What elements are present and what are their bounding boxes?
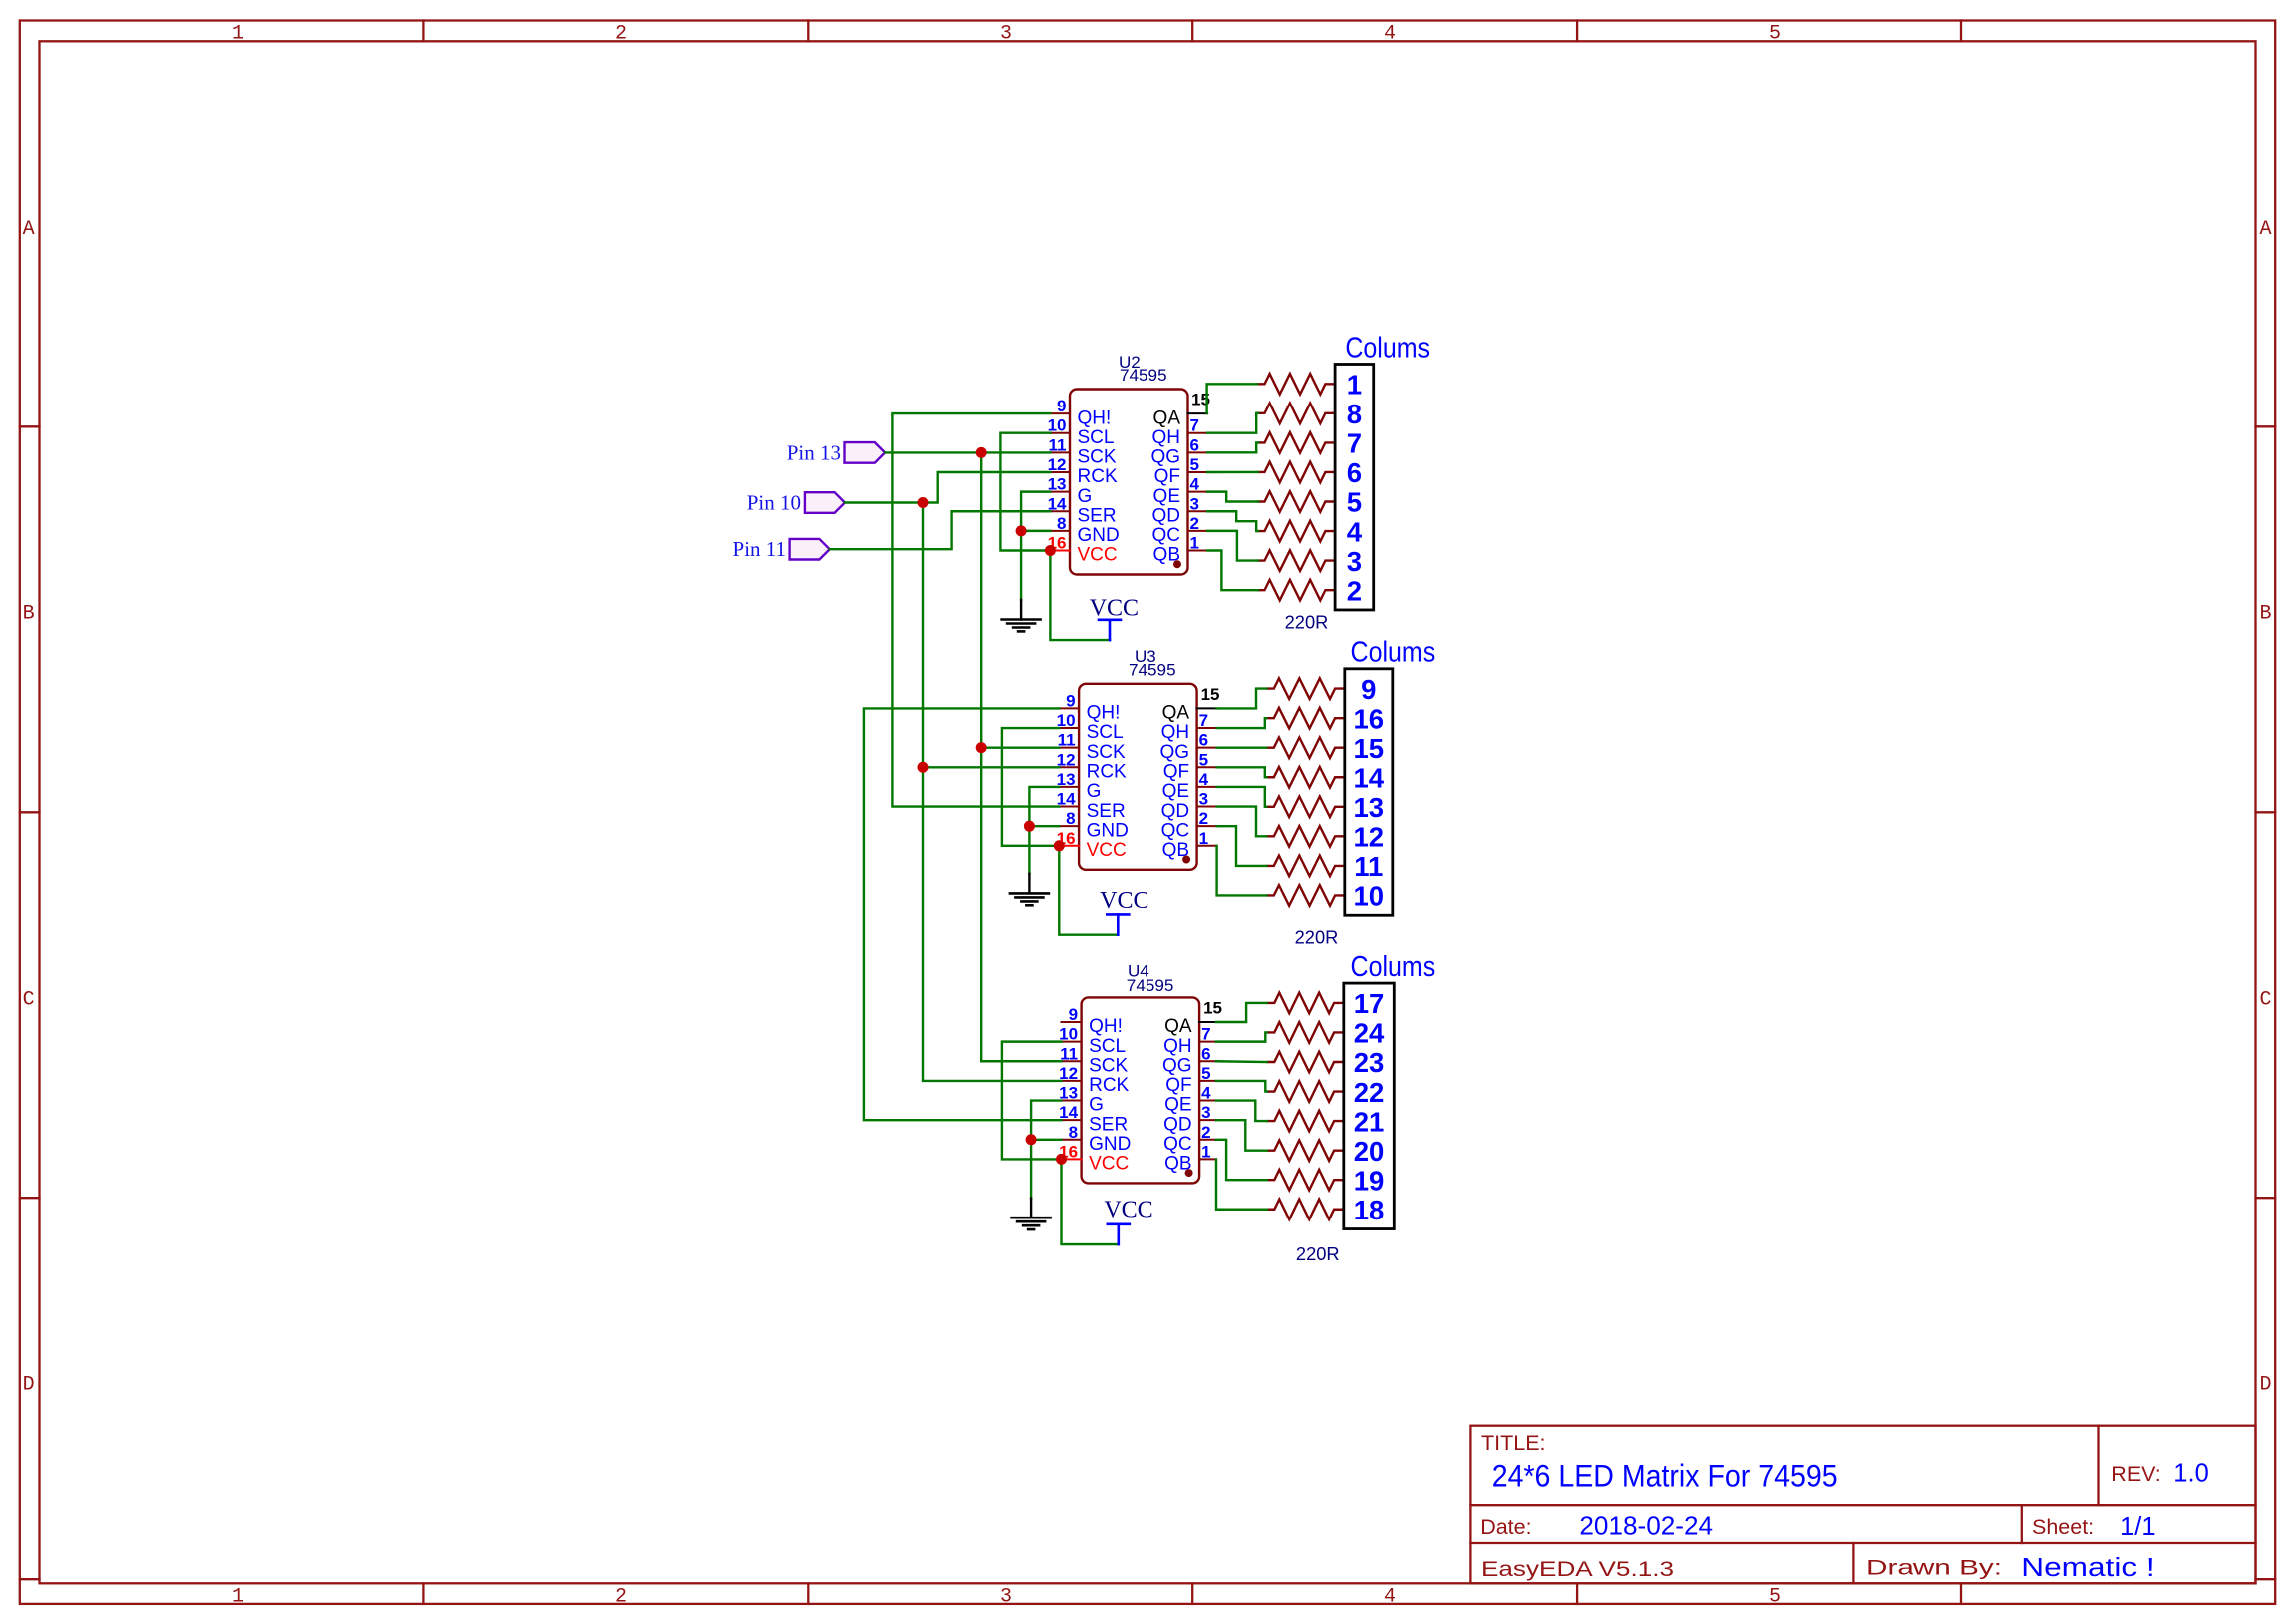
svg-text:QE: QE xyxy=(1153,486,1180,507)
resistor R7 220R xyxy=(1257,550,1335,571)
wire U2.QF to resistor R4 xyxy=(1207,471,1258,473)
wire net SCK: Pin 13 flag to U2.SCK xyxy=(885,451,1050,453)
svg-text:2: 2 xyxy=(1347,575,1362,606)
resistor R6 220R xyxy=(1267,1140,1344,1161)
connector header Colums (U2 bank) box xyxy=(1335,365,1374,610)
svg-text:7: 7 xyxy=(1190,416,1199,435)
svg-text:SCL: SCL xyxy=(1078,427,1115,448)
U2 pin-1 marker dot xyxy=(1173,560,1181,568)
net flag Pin 11 xyxy=(790,539,830,560)
svg-text:B: B xyxy=(2259,603,2271,626)
frame column tick (bottom) xyxy=(422,1583,424,1604)
U2 pin 6 (QG) pin line xyxy=(1188,451,1208,453)
wire U2.QG to resistor R3 xyxy=(1207,442,1258,452)
wire U3.QH! to U4.SER (serial cascade) xyxy=(864,708,1062,1120)
svg-text:2018-02-24: 2018-02-24 xyxy=(1579,1513,1713,1541)
wire U4.G to U4.GND (output enable tied low) xyxy=(1031,1101,1061,1140)
svg-text:12: 12 xyxy=(1354,822,1385,853)
svg-text:6: 6 xyxy=(1201,1044,1210,1063)
svg-text:16: 16 xyxy=(1354,703,1385,734)
resistor R2 220R xyxy=(1267,1022,1344,1043)
resistor R4 220R xyxy=(1257,462,1335,483)
svg-text:QF: QF xyxy=(1154,466,1180,487)
U2 pin 8 (GND) pin line xyxy=(1050,530,1070,532)
svg-text:Drawn By:: Drawn By: xyxy=(1866,1556,2002,1580)
svg-text:D: D xyxy=(2259,1374,2271,1397)
svg-text:1: 1 xyxy=(1347,370,1362,401)
VCC power symbol (U3) xyxy=(1117,914,1120,934)
wire U3.QH to resistor R2 xyxy=(1217,718,1267,728)
resistor R3 220R xyxy=(1267,1052,1344,1073)
svg-text:24: 24 xyxy=(1354,1018,1385,1049)
resistor R8 220R xyxy=(1257,580,1335,601)
wire net RCK: vertical to U4.RCK xyxy=(923,767,1062,1081)
svg-text:1: 1 xyxy=(232,23,244,46)
wire net RCK: Pin 10 flag to U2.RCK xyxy=(845,472,1051,503)
wire U2.QD to resistor R6 xyxy=(1207,511,1258,531)
wire net SCK: vertical to U3.SCK xyxy=(981,452,1059,747)
svg-text:QF: QF xyxy=(1165,1075,1191,1096)
svg-text:Nematic !: Nematic ! xyxy=(2021,1554,2154,1582)
frame row tick (right) xyxy=(2256,1197,2276,1199)
svg-text:QA: QA xyxy=(1162,703,1190,724)
wire U2.G to U2.GND (output enable tied low) xyxy=(1021,492,1050,531)
U4 pin 14 (SER) pin line xyxy=(1062,1119,1082,1121)
svg-text:19: 19 xyxy=(1354,1165,1385,1196)
svg-text:SCL: SCL xyxy=(1087,722,1124,743)
svg-text:SER: SER xyxy=(1078,505,1117,526)
svg-text:GND: GND xyxy=(1078,525,1120,546)
svg-text:Date:: Date: xyxy=(1480,1515,1531,1539)
svg-text:1.0: 1.0 xyxy=(2173,1460,2208,1488)
svg-text:Pin 11: Pin 11 xyxy=(733,537,786,561)
svg-text:QH: QH xyxy=(1161,722,1190,743)
U3 pin 4 (QE) pin line xyxy=(1197,786,1217,788)
svg-text:VCC: VCC xyxy=(1090,596,1139,622)
svg-text:15: 15 xyxy=(1203,998,1222,1017)
title block row line (below Date row) xyxy=(1470,1542,2255,1544)
U3 pin 6 (QG) pin line xyxy=(1197,747,1217,749)
svg-text:QH!: QH! xyxy=(1089,1016,1123,1037)
svg-text:A: A xyxy=(23,218,35,241)
U4 pin 3 (QD) pin line xyxy=(1199,1119,1216,1121)
svg-text:23: 23 xyxy=(1354,1047,1385,1078)
resistor R5 220R xyxy=(1266,797,1345,818)
resistor R6 220R xyxy=(1266,826,1345,847)
svg-text:QC: QC xyxy=(1161,820,1190,841)
frame column tick (bottom) xyxy=(1960,1583,1962,1604)
U3 pin 5 (QF) pin line xyxy=(1197,766,1217,768)
resistor R6 220R xyxy=(1257,521,1335,542)
U3 pin-1 marker dot xyxy=(1182,856,1190,864)
svg-text:3: 3 xyxy=(1347,546,1362,577)
svg-text:13: 13 xyxy=(1354,792,1385,823)
resistor R7 220R xyxy=(1266,856,1345,877)
74595 IC U3 body xyxy=(1079,684,1197,870)
svg-text:8: 8 xyxy=(1066,809,1075,828)
svg-text:EasyEDA V5.1.3: EasyEDA V5.1.3 xyxy=(1481,1557,1674,1581)
U3 pin 16 (VCC) pin line xyxy=(1059,845,1079,847)
U3 pin 3 (QD) pin line xyxy=(1197,806,1217,808)
svg-text:7: 7 xyxy=(1199,711,1208,730)
svg-text:3: 3 xyxy=(1000,23,1012,46)
wire U2.QH to resistor R2 xyxy=(1207,413,1258,433)
svg-text:QF: QF xyxy=(1163,761,1189,782)
U4 pin 5 (QF) pin line xyxy=(1199,1080,1216,1082)
wire U4.QH to resistor R2 xyxy=(1216,1032,1267,1041)
svg-text:RCK: RCK xyxy=(1087,761,1127,782)
U4 pin 10 (SCL) pin line xyxy=(1062,1041,1082,1043)
svg-text:QD: QD xyxy=(1163,1114,1192,1135)
wire U3.VCC to VCC symbol xyxy=(1059,846,1118,935)
resistor R4 220R xyxy=(1267,1081,1344,1102)
svg-text:5: 5 xyxy=(1201,1064,1210,1083)
svg-text:5: 5 xyxy=(1347,487,1362,518)
U3 pin 9 (QH!) pin line xyxy=(1059,707,1079,709)
svg-text:9: 9 xyxy=(1057,397,1066,415)
U4 pin-1 marker dot xyxy=(1185,1169,1193,1177)
VCC power symbol (U2) xyxy=(1109,620,1112,640)
wire U4.QE to resistor R5 xyxy=(1216,1101,1267,1122)
wire U3.QE to resistor R5 xyxy=(1217,787,1267,807)
U4 pin 13 (G) pin line xyxy=(1062,1100,1082,1102)
U3 pin 1 (QB) pin line xyxy=(1197,845,1217,847)
U3 pin 7 (QH) pin line xyxy=(1197,727,1217,729)
resistor R2 220R xyxy=(1257,404,1335,424)
frame column tick (bottom) xyxy=(1191,1583,1193,1604)
svg-text:C: C xyxy=(2259,989,2271,1012)
svg-text:5: 5 xyxy=(1769,1585,1781,1608)
svg-text:Pin 13: Pin 13 xyxy=(787,440,841,464)
svg-text:VCC: VCC xyxy=(1089,1154,1129,1175)
resistor R5 220R xyxy=(1257,491,1335,512)
junction dot U3 GND node xyxy=(1024,821,1035,832)
svg-text:17: 17 xyxy=(1354,988,1385,1019)
U3 pin 8 (GND) pin line xyxy=(1059,825,1079,827)
svg-text:QH: QH xyxy=(1152,427,1181,448)
wire U2.QA to resistor R1 xyxy=(1207,384,1257,413)
svg-text:G: G xyxy=(1078,486,1093,507)
svg-text:Colums: Colums xyxy=(1345,333,1430,365)
svg-text:QA: QA xyxy=(1164,1016,1192,1037)
frame row tick (left) xyxy=(20,1197,40,1199)
svg-text:C: C xyxy=(23,989,35,1012)
resistor R8 220R xyxy=(1266,885,1345,906)
U2 pin 13 (G) pin line xyxy=(1050,491,1070,493)
svg-text:1: 1 xyxy=(1201,1142,1210,1161)
U3 pin 11 (SCK) pin line xyxy=(1059,747,1079,749)
connector header Colums (U3 bank) box xyxy=(1345,669,1393,915)
junction dot RCK at Pin 10 wire xyxy=(918,497,929,508)
svg-text:21: 21 xyxy=(1354,1106,1385,1137)
wire U4.QC to resistor R7 xyxy=(1216,1140,1267,1180)
svg-text:4: 4 xyxy=(1384,1585,1396,1608)
svg-text:QH!: QH! xyxy=(1087,703,1121,724)
svg-text:3: 3 xyxy=(1201,1103,1210,1122)
svg-text:SER: SER xyxy=(1089,1114,1128,1135)
wire U3.QC to resistor R7 xyxy=(1217,826,1267,866)
junction dot U3 VCC node xyxy=(1054,840,1065,851)
U2 pin 5 (QF) pin line xyxy=(1188,471,1208,473)
svg-text:3: 3 xyxy=(1199,790,1208,809)
svg-text:2: 2 xyxy=(1190,514,1199,533)
wire U2.QE to resistor R5 xyxy=(1207,492,1258,502)
wire U3.G to U3.GND (output enable tied low) xyxy=(1029,787,1059,826)
wire U4.QF to resistor R4 xyxy=(1216,1081,1267,1092)
svg-text:VCC: VCC xyxy=(1078,545,1118,566)
U4 pin 8 (GND) pin line xyxy=(1062,1139,1082,1141)
U4 pin 2 (QC) pin line xyxy=(1199,1139,1216,1141)
svg-text:4: 4 xyxy=(1190,475,1200,494)
VCC power symbol (U4) xyxy=(1118,1224,1121,1244)
connector header Colums (U4 bank) box xyxy=(1344,983,1395,1228)
svg-text:9: 9 xyxy=(1069,1005,1078,1024)
svg-text:3: 3 xyxy=(1190,494,1199,513)
title block Drawn-By divider xyxy=(1852,1543,1854,1583)
junction dot RCK at U3.RCK xyxy=(918,762,929,773)
U3 pin 15 (QA) pin line xyxy=(1197,707,1217,709)
ground symbol (U3) xyxy=(1028,874,1030,894)
title block row line (below TITLE row) xyxy=(1470,1504,2255,1506)
wire U3.QG to resistor R3 xyxy=(1217,746,1267,748)
U3 pin 12 (RCK) pin line xyxy=(1059,766,1079,768)
svg-text:5: 5 xyxy=(1190,455,1199,474)
resistor R3 220R xyxy=(1266,737,1345,758)
wire U3.SCL to U3.VCC (SRCLR tied high) xyxy=(1002,728,1059,846)
resistor R1 220R xyxy=(1267,993,1344,1014)
U2 pin 14 (SER) pin line xyxy=(1050,510,1070,512)
svg-text:SER: SER xyxy=(1087,801,1126,822)
junction dot U4 GND node xyxy=(1026,1134,1037,1145)
wire U4.QD to resistor R6 xyxy=(1216,1120,1267,1151)
svg-text:VCC: VCC xyxy=(1100,888,1148,914)
resistor R8 220R xyxy=(1267,1199,1344,1219)
svg-text:9: 9 xyxy=(1066,691,1075,710)
svg-text:Pin 10: Pin 10 xyxy=(747,490,801,514)
U2 pin 10 (SCL) pin line xyxy=(1050,432,1070,434)
svg-text:5: 5 xyxy=(1769,23,1781,46)
svg-text:TITLE:: TITLE: xyxy=(1481,1431,1546,1455)
svg-text:11: 11 xyxy=(1060,1044,1078,1063)
resistor R2 220R xyxy=(1266,708,1345,729)
svg-text:RCK: RCK xyxy=(1089,1075,1129,1096)
svg-text:QD: QD xyxy=(1152,505,1181,526)
U2 pin 9 (QH!) pin line xyxy=(1050,412,1070,414)
wire U3.QD to resistor R6 xyxy=(1217,807,1267,837)
svg-text:QA: QA xyxy=(1153,407,1181,428)
U2 pin 16 (VCC) pin line xyxy=(1050,550,1070,552)
frame corner tick (bottom-right) xyxy=(2256,1578,2276,1580)
U3 pin 10 (SCL) pin line xyxy=(1059,727,1079,729)
svg-text:A: A xyxy=(2259,218,2271,241)
svg-text:74595: 74595 xyxy=(1120,366,1167,385)
U4 pin 15 (QA) pin line xyxy=(1199,1021,1216,1023)
U4 pin 7 (QH) pin line xyxy=(1199,1041,1216,1043)
wire U3.QF to resistor R4 xyxy=(1217,767,1267,777)
svg-text:SCK: SCK xyxy=(1089,1055,1128,1076)
svg-text:14: 14 xyxy=(1354,762,1385,793)
wire U2.QC to resistor R7 xyxy=(1207,531,1258,561)
svg-text:QC: QC xyxy=(1163,1134,1192,1155)
svg-text:QC: QC xyxy=(1152,525,1181,546)
resistor R1 220R xyxy=(1257,374,1335,395)
svg-text:8: 8 xyxy=(1057,514,1066,533)
wire U4.VCC to VCC symbol xyxy=(1062,1159,1119,1244)
U2 pin 15 (QA) pin line xyxy=(1188,412,1208,414)
wire net SCK: vertical to U4.SCK xyxy=(981,748,1061,1062)
svg-text:74595: 74595 xyxy=(1127,976,1174,995)
U4 pin 1 (QB) pin line xyxy=(1199,1158,1216,1160)
ground symbol (U2) xyxy=(1020,600,1022,620)
svg-text:2: 2 xyxy=(1199,809,1208,828)
resistor R4 220R xyxy=(1266,767,1345,788)
U4 pin 16 (VCC) pin line xyxy=(1062,1158,1082,1160)
svg-text:8: 8 xyxy=(1347,399,1362,429)
net flag Pin 13 xyxy=(845,442,886,463)
frame row tick (right) xyxy=(2256,425,2276,427)
svg-text:18: 18 xyxy=(1354,1195,1385,1225)
frame row tick (left) xyxy=(20,425,40,427)
wire U2.SCL to U2.VCC (SRCLR tied high) xyxy=(1000,433,1050,551)
svg-text:QG: QG xyxy=(1150,447,1180,468)
frame column tick (top) xyxy=(422,21,424,42)
svg-text:QG: QG xyxy=(1162,1055,1192,1076)
svg-text:220R: 220R xyxy=(1295,928,1339,948)
svg-text:7: 7 xyxy=(1201,1025,1210,1044)
svg-text:1: 1 xyxy=(1199,829,1208,848)
net flag Pin 10 xyxy=(805,492,845,513)
junction dot SCK at U3.SCK xyxy=(976,742,987,753)
wire U4.QA to resistor R1 xyxy=(1216,1003,1267,1022)
resistor R7 220R xyxy=(1267,1170,1344,1191)
svg-text:220R: 220R xyxy=(1296,1244,1340,1264)
74595 IC U4 body xyxy=(1082,997,1200,1183)
frame row tick (left) xyxy=(20,811,40,813)
resistor R3 220R xyxy=(1257,432,1335,453)
frame column tick (top) xyxy=(1960,21,1962,42)
svg-text:2: 2 xyxy=(615,23,627,46)
svg-text:15: 15 xyxy=(1354,733,1385,764)
svg-text:G: G xyxy=(1089,1095,1104,1116)
svg-text:2: 2 xyxy=(615,1585,627,1608)
wire U2.GND to ground xyxy=(1021,531,1050,600)
svg-text:8: 8 xyxy=(1069,1123,1078,1142)
wire U4.QG to resistor R3 xyxy=(1216,1060,1267,1063)
junction dot SCK at Pin 13 wire xyxy=(976,447,987,458)
svg-text:1: 1 xyxy=(232,1585,244,1608)
svg-text:VCC: VCC xyxy=(1087,840,1127,861)
U3 pin 14 (SER) pin line xyxy=(1059,806,1079,808)
svg-text:QG: QG xyxy=(1160,742,1190,763)
svg-text:3: 3 xyxy=(1000,1585,1012,1608)
frame column tick (bottom) xyxy=(1576,1583,1578,1604)
wire U2.VCC to VCC symbol xyxy=(1050,551,1110,641)
wire U3.QB to resistor R8 xyxy=(1217,846,1267,896)
U2 pin 3 (QD) pin line xyxy=(1188,510,1208,512)
svg-text:SCK: SCK xyxy=(1087,742,1126,763)
svg-text:4: 4 xyxy=(1347,516,1363,547)
wire U4.GND to ground xyxy=(1031,1140,1061,1199)
svg-text:VCC: VCC xyxy=(1104,1198,1152,1223)
wire U4.SCL to U4.VCC (SRCLR tied high) xyxy=(1002,1042,1062,1160)
wire net RCK: vertical to U3.RCK xyxy=(923,503,1059,768)
svg-text:4: 4 xyxy=(1199,770,1209,789)
svg-text:B: B xyxy=(23,603,35,626)
U2 pin 1 (QB) pin line xyxy=(1188,550,1208,552)
svg-text:G: G xyxy=(1087,781,1102,802)
wire net SER: Pin 11 flag to U2.SER xyxy=(830,511,1051,549)
U4 pin 4 (QE) pin line xyxy=(1199,1100,1216,1102)
wire U3.GND to ground xyxy=(1029,826,1059,874)
frame column tick (top) xyxy=(1191,21,1193,42)
U4 pin 9 (QH!) pin line xyxy=(1062,1021,1082,1023)
svg-text:11: 11 xyxy=(1354,851,1383,882)
wire U2.QB to resistor R8 xyxy=(1207,551,1258,591)
junction dot U2 VCC node xyxy=(1045,545,1056,556)
svg-text:SCL: SCL xyxy=(1089,1036,1126,1057)
svg-text:10: 10 xyxy=(1354,881,1385,912)
svg-text:4: 4 xyxy=(1201,1084,1211,1103)
svg-text:6: 6 xyxy=(1347,457,1362,488)
U3 pin 2 (QC) pin line xyxy=(1197,825,1217,827)
svg-text:7: 7 xyxy=(1347,428,1362,459)
svg-text:220R: 220R xyxy=(1285,613,1329,633)
frame corner tick (bottom-left) xyxy=(20,1578,40,1580)
svg-text:24*6 LED Matrix For 74595: 24*6 LED Matrix For 74595 xyxy=(1492,1458,1838,1493)
U3 pin 13 (G) pin line xyxy=(1059,786,1079,788)
74595 IC U2 body xyxy=(1070,390,1188,575)
wire U2.QH! to U3.SER (serial cascade) xyxy=(892,413,1059,806)
svg-text:Colums: Colums xyxy=(1351,951,1436,983)
svg-text:QE: QE xyxy=(1164,1095,1191,1116)
U2 pin 4 (QE) pin line xyxy=(1188,491,1208,493)
ground symbol (U4) xyxy=(1030,1199,1032,1218)
frame column tick (top) xyxy=(807,21,809,42)
svg-text:QH: QH xyxy=(1163,1036,1192,1057)
svg-text:6: 6 xyxy=(1199,731,1208,750)
U4 pin 6 (QG) pin line xyxy=(1199,1060,1216,1062)
title block Sheet divider xyxy=(2021,1505,2023,1543)
svg-text:9: 9 xyxy=(1361,674,1376,705)
svg-text:20: 20 xyxy=(1354,1136,1385,1167)
wire U3.QA to resistor R1 xyxy=(1217,689,1267,709)
U2 pin 7 (QH) pin line xyxy=(1188,432,1208,434)
svg-text:15: 15 xyxy=(1201,685,1220,704)
U2 pin 12 (RCK) pin line xyxy=(1050,471,1070,473)
svg-text:Colums: Colums xyxy=(1351,637,1436,669)
svg-text:D: D xyxy=(23,1374,35,1397)
svg-text:RCK: RCK xyxy=(1078,466,1118,487)
U4 pin 11 (SCK) pin line xyxy=(1062,1060,1082,1062)
svg-text:REV:: REV: xyxy=(2111,1462,2160,1486)
frame column tick (top) xyxy=(1576,21,1578,42)
svg-text:QD: QD xyxy=(1161,801,1190,822)
U2 pin 11 (SCK) pin line xyxy=(1050,451,1070,453)
frame row tick (right) xyxy=(2256,811,2276,813)
resistor R1 220R xyxy=(1266,678,1345,699)
frame column tick (bottom) xyxy=(807,1583,809,1604)
svg-text:5: 5 xyxy=(1199,750,1208,769)
svg-text:22: 22 xyxy=(1354,1077,1385,1108)
svg-text:1: 1 xyxy=(1190,534,1199,553)
U4 pin 12 (RCK) pin line xyxy=(1062,1080,1082,1082)
svg-text:4: 4 xyxy=(1384,23,1396,46)
U2 pin 2 (QC) pin line xyxy=(1188,530,1208,532)
junction dot U2 GND node xyxy=(1016,525,1027,536)
title block REV divider xyxy=(2097,1426,2099,1506)
svg-text:QH!: QH! xyxy=(1078,407,1112,428)
svg-text:1/1: 1/1 xyxy=(2120,1513,2155,1541)
